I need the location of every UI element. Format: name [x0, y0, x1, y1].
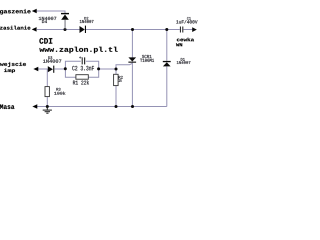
wire SCR1 anode — [131, 30, 133, 58]
label R2 name — [119, 76, 123, 79]
node zasilanie terminal — [32, 27, 37, 31]
label wejscie — [0, 62, 26, 67]
node D1/zasilanie junction — [165, 28, 168, 31]
label SCR1 value T106M1 — [140, 59, 154, 62]
node SCR1/rail junction — [131, 105, 134, 108]
wire wejscie net — [37, 68, 65, 70]
node gaszenie terminal — [32, 9, 37, 13]
label C1 name — [187, 17, 191, 20]
wire SCR1 cathode — [131, 63, 133, 107]
label D2 value 1N4007 — [80, 20, 94, 23]
label D4 value 1N4007 — [39, 17, 57, 20]
label D2 name — [84, 17, 88, 20]
wire gaszenie net — [37, 11, 66, 13]
label D3 name — [48, 56, 52, 59]
label D1 name — [181, 58, 185, 61]
label www.zaplon.pl.tl — [39, 47, 117, 54]
diode D3 — [48, 66, 55, 73]
node loop left junction — [64, 67, 67, 70]
label R3 name — [56, 88, 60, 91]
diode D2 — [80, 26, 87, 33]
wire SCR1 gate — [116, 63, 132, 69]
capacitor C1 — [180, 27, 183, 33]
label CDI — [39, 38, 52, 44]
capacitor C2 — [82, 57, 86, 64]
label SCR1 name — [142, 55, 152, 58]
wire R2 branch — [115, 69, 117, 107]
wire ground/Masa rail — [35, 106, 167, 108]
label D1 value 1N4007 — [177, 61, 191, 64]
thyristor SCR1 — [128, 57, 136, 62]
node R2/rail junction — [115, 105, 118, 108]
capacitor C2 polarity mark — [79, 56, 81, 58]
node D4/zasilanie junction — [64, 28, 67, 31]
label zasilanie — [0, 26, 30, 30]
label WN — [176, 43, 182, 46]
node Masa terminal — [33, 104, 38, 108]
resistor R1 — [76, 75, 88, 80]
diode D1 — [163, 61, 171, 67]
wire D1 branch — [166, 30, 168, 107]
node wejscie terminal — [34, 67, 39, 71]
wire zasilanie net — [37, 29, 193, 31]
resistor R2 — [114, 74, 119, 85]
label C1 value 1uF/400V — [176, 20, 197, 24]
diode D4 — [61, 13, 69, 30]
ground — [43, 107, 52, 114]
wire R3 branch — [46, 69, 48, 107]
resistor R3 — [45, 87, 49, 97]
node gate/R2 junction — [115, 68, 118, 71]
label D4 name — [42, 20, 47, 23]
label Masa — [0, 105, 14, 110]
wire RC loop — [65, 61, 98, 77]
node loop right junction — [97, 67, 100, 70]
label cewka — [177, 38, 194, 42]
label gaszenie — [0, 9, 31, 14]
node SCR1/zasilanie junction — [131, 28, 134, 31]
arrow to cewka WN — [192, 27, 197, 32]
label R3 value 100k — [54, 92, 65, 95]
label R2 value — [119, 79, 122, 82]
label imp — [4, 69, 15, 74]
label D3 value 1N4007 — [43, 60, 61, 63]
label R1 value — [73, 80, 89, 84]
node R3/rail junction — [46, 105, 49, 108]
wire loop to gate junction — [99, 68, 116, 70]
label C2 value — [72, 66, 94, 71]
